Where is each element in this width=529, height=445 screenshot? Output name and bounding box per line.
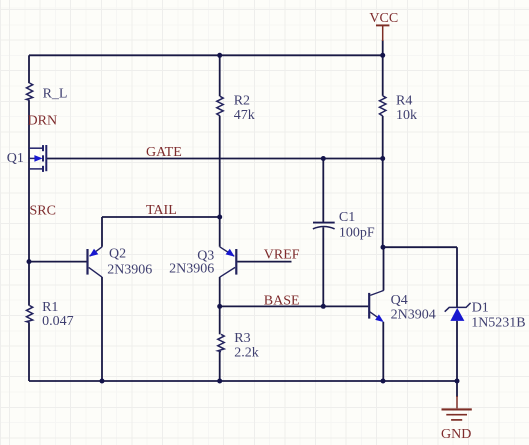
wire VCC stem navy part bbox=[382, 40, 384, 55]
svg-text:VREF: VREF bbox=[264, 248, 300, 263]
Q2 base bar bbox=[86, 249, 88, 275]
resistor R_L bbox=[27, 83, 33, 100]
Q4 collector diagonal bbox=[370, 290, 384, 295]
Q1 drain stub bbox=[29, 147, 42, 149]
ground symbol GND bbox=[441, 396, 472, 442]
wire R4 column upper segment bbox=[382, 55, 384, 96]
wire Q4 collector riser bbox=[383, 247, 385, 290]
wire VREF stub from Q3 base bbox=[237, 261, 291, 263]
svg-text:10k: 10k bbox=[396, 108, 417, 123]
svg-text:2N3906: 2N3906 bbox=[169, 261, 214, 276]
wire GATE horizontal bbox=[47, 158, 383, 160]
junction at GND on bottom rail bbox=[455, 379, 460, 384]
zener diode D1 bbox=[445, 303, 471, 321]
junction at C1 on BASE bbox=[321, 304, 326, 309]
svg-text:2N3904: 2N3904 bbox=[391, 308, 436, 323]
Q3 base bar bbox=[235, 249, 237, 275]
svg-text:R_L: R_L bbox=[43, 86, 68, 101]
svg-text:2N3906: 2N3906 bbox=[107, 263, 152, 278]
wire top rail VCC net bbox=[29, 54, 383, 56]
Q1 channel segment top bbox=[42, 145, 44, 151]
Q1 channel segment bottom bbox=[42, 166, 44, 172]
Q3 collector diagonal bbox=[220, 267, 235, 277]
svg-text:BASE: BASE bbox=[264, 294, 300, 309]
wire Q2 collector drop bbox=[101, 277, 103, 381]
svg-text:R3: R3 bbox=[234, 331, 250, 346]
junction at Q4 collector / D1 node bbox=[381, 245, 386, 250]
wire TAIL horizontal bbox=[102, 216, 220, 218]
power port VCC bbox=[369, 11, 398, 41]
wire TAIL drop to Q2 emitter bbox=[101, 217, 103, 247]
junction at SRC / Q2 base bbox=[27, 259, 32, 264]
resistor R4 bbox=[380, 96, 386, 116]
transistor Q3 (PNP 2N3906) bbox=[220, 247, 237, 277]
D1 cathode bar with zener bends bbox=[445, 303, 471, 312]
svg-text:Q1: Q1 bbox=[7, 151, 24, 166]
svg-text:R4: R4 bbox=[396, 94, 412, 109]
svg-text:100pF: 100pF bbox=[339, 225, 375, 240]
junction at C1 on GATE bbox=[321, 156, 326, 161]
junction at TAIL on R2 column bbox=[217, 215, 222, 220]
Q4 emitter arrow bbox=[375, 314, 384, 322]
Q3 emitter diagonal bbox=[220, 247, 235, 256]
junction at R3 on bottom rail bbox=[217, 379, 222, 384]
svg-text:C1: C1 bbox=[339, 210, 355, 225]
Q1 body stub with arrow bbox=[29, 157, 35, 159]
svg-text:VCC: VCC bbox=[369, 11, 398, 26]
transistor Q4 (NPN 2N3904) bbox=[369, 290, 384, 322]
wire BASE horizontal bbox=[220, 305, 369, 307]
svg-text:Q2: Q2 bbox=[109, 246, 126, 261]
junction at VCC top rail bbox=[380, 53, 385, 58]
svg-text:SRC: SRC bbox=[30, 204, 56, 219]
svg-text:R2: R2 bbox=[234, 94, 250, 109]
Q1 gate bar bbox=[45, 145, 47, 171]
wire left rail upper segment to R_L bbox=[28, 55, 30, 83]
wire C1 upper segment bbox=[322, 159, 324, 223]
wire Q3 collector segment to R3 bbox=[219, 277, 221, 334]
svg-text:Q4: Q4 bbox=[391, 293, 408, 308]
Q2 emitter diagonal bbox=[90, 247, 103, 256]
wire node to D1 horizontal bbox=[383, 246, 457, 248]
wire R4 column lower segment to GATE junction and Q4 collector node bbox=[382, 116, 384, 247]
MOSFET Q1 bbox=[29, 145, 46, 172]
wire R2 column upper segment bbox=[219, 55, 221, 96]
svg-text:DRN: DRN bbox=[28, 113, 58, 128]
svg-text:GND: GND bbox=[441, 427, 471, 442]
wire bottom rail GND net bbox=[29, 380, 457, 382]
resistor R2 bbox=[217, 96, 223, 116]
wire GND stem navy part bbox=[456, 381, 458, 397]
junction at Q4 emitter on bottom rail bbox=[381, 379, 386, 384]
svg-text:1N5231B: 1N5231B bbox=[471, 315, 525, 330]
Q2 collector diagonal bbox=[89, 267, 102, 277]
transistor Q2 (PNP 2N3906, mirrored) bbox=[88, 247, 103, 277]
junction at R4 on GATE bbox=[380, 156, 385, 161]
wire Q2 base to SRC node bbox=[29, 261, 87, 263]
Q3 emitter arrow bbox=[226, 249, 235, 257]
junction at R2 top rail bbox=[217, 53, 222, 58]
wire C1 lower segment to BASE bbox=[322, 227, 324, 306]
svg-text:0.047: 0.047 bbox=[42, 314, 74, 329]
svg-text:D1: D1 bbox=[472, 301, 489, 316]
wire R2 column lower to TAIL and Q3 emitter bbox=[219, 116, 221, 247]
D1 anode triangle bbox=[450, 308, 464, 321]
wire D1 lower segment bbox=[456, 321, 458, 381]
capacitor C1 bbox=[313, 223, 335, 229]
wire left rail middle segment (R_L to R1 through Q1) bbox=[28, 100, 30, 305]
svg-text:R1: R1 bbox=[42, 300, 58, 315]
wire D1 upper segment bbox=[456, 247, 458, 307]
resistor R1 bbox=[27, 306, 33, 323]
Q4 base bar bbox=[368, 293, 370, 319]
svg-text:TAIL: TAIL bbox=[146, 203, 177, 218]
svg-text:2.2k: 2.2k bbox=[234, 345, 258, 360]
wire R3 bottom segment bbox=[219, 352, 221, 381]
junction at BASE on Q3 collector bbox=[217, 304, 222, 309]
wire left rail lower segment below R1 bbox=[28, 322, 30, 381]
Q2 emitter arrow bbox=[89, 249, 98, 257]
wire Q4 emitter drop bbox=[382, 322, 384, 381]
Q1 source stub bbox=[29, 168, 42, 170]
resistor R3 bbox=[218, 334, 224, 351]
junction at Q2 collector on bottom rail bbox=[100, 379, 105, 384]
Q4 emitter diagonal bbox=[370, 312, 379, 319]
svg-text:47k: 47k bbox=[234, 108, 255, 123]
Q1 channel segment middle bbox=[42, 155, 44, 161]
svg-text:GATE: GATE bbox=[146, 145, 182, 160]
